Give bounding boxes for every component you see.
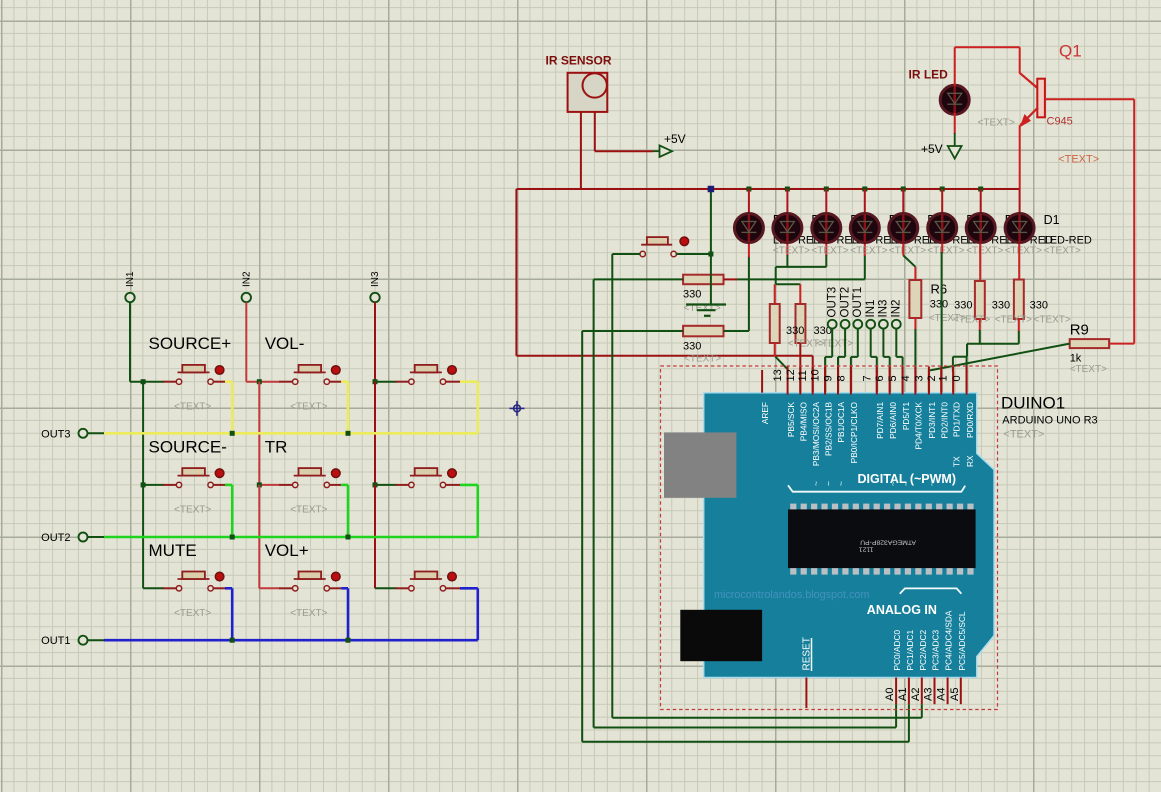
svg-text:OUT3: OUT3 (826, 287, 838, 318)
LED D5 (LED-RED) (850, 214, 879, 243)
svg-text:PC3/ADC3: PC3/ADC3 (931, 630, 941, 671)
svg-text:<TEXT>: <TEXT> (684, 354, 721, 365)
resistor 330 under LED8 (1014, 280, 1024, 320)
wire OUT1 horizontal (87, 639, 104, 641)
svg-text:IN2: IN2 (241, 271, 252, 287)
svg-text:TX: TX (951, 456, 961, 467)
pin A1 stub (908, 678, 910, 705)
push button row3 col3 (409, 586, 414, 591)
power +5V arrow (IR LED) (948, 146, 962, 159)
svg-text:PD5/T1: PD5/T1 (901, 402, 911, 431)
ground symbol (686, 303, 726, 305)
svg-text:MUTE: MUTE (149, 541, 197, 560)
svg-text:<TEXT>: <TEXT> (927, 245, 964, 256)
terminal OUT2 (79, 533, 88, 542)
svg-text:~: ~ (888, 481, 898, 486)
wire row2 col3 drop to OUT2 (476, 485, 479, 537)
push button row2 col1 SOURCE- (176, 482, 181, 487)
svg-text:C945: C945 (1047, 116, 1073, 128)
svg-text:PB3/MOSI/OC2A: PB3/MOSI/OC2A (811, 402, 821, 467)
svg-text:OUT1: OUT1 (852, 287, 864, 318)
digital bracket (788, 485, 965, 491)
svg-text:<TEXT>: <TEXT> (1005, 245, 1042, 256)
dashed outline DUINO1 (661, 366, 998, 710)
pin 13 stub (787, 367, 789, 395)
svg-text:ANALOG IN: ANALOG IN (867, 603, 937, 617)
svg-text:1: 1 (938, 375, 950, 381)
svg-text:VOL+: VOL+ (265, 541, 309, 560)
svg-text:OUT1: OUT1 (41, 635, 70, 647)
junction OUT1 col2 (346, 638, 351, 643)
wire row1 col1 drop to OUT3 (231, 382, 234, 434)
svg-text:<TEXT>: <TEXT> (953, 315, 990, 326)
svg-text:PB5/SCK: PB5/SCK (786, 402, 796, 438)
LED D4 (LED-RED) (889, 214, 918, 243)
wire row1 col2 drop to OUT3 (347, 382, 350, 434)
junction bus LED6 (940, 187, 945, 192)
push button row1 col2 VOL- (293, 379, 298, 384)
wire IN2 vertical (245, 302, 247, 382)
junction OUT1 col1 (230, 638, 235, 643)
svg-text:<TEXT>: <TEXT> (889, 245, 926, 256)
wire resistor-upper net to A0 (593, 279, 595, 727)
wire row1 col3 left stub (375, 381, 396, 383)
push button row1 col1 SOURCE+ (176, 379, 181, 384)
pin A2 stub (921, 678, 923, 705)
wire row2 col3 left stub (375, 484, 396, 486)
svg-text:<TEXT>: <TEXT> (816, 339, 853, 350)
resistor 330 lower (R?) (683, 326, 723, 337)
wire col1 vertical to row2 (142, 382, 144, 485)
terminal IN3 (370, 293, 379, 302)
terminal IN1 (125, 293, 134, 302)
svg-text:<TEXT>: <TEXT> (850, 245, 887, 256)
svg-text:Q1: Q1 (1059, 42, 1082, 61)
push button row2 col2 TR (293, 482, 298, 487)
svg-text:~: ~ (811, 481, 821, 486)
svg-text:<TEXT>: <TEXT> (1034, 315, 1071, 326)
wire LED3 down (825, 244, 827, 257)
wire row3 col2 drop to OUT1 (347, 588, 350, 640)
LED D8 (LED-RED) (734, 214, 763, 243)
junction OUT2 col2 (346, 535, 351, 540)
pin RESET stub (805, 678, 807, 709)
svg-text:DUINO1: DUINO1 (1001, 394, 1065, 413)
wire LED5 to R6 (902, 244, 904, 256)
wire IR LED cathode down (954, 113, 956, 134)
junction bus LED2 (785, 187, 790, 192)
svg-text:<TEXT>: <TEXT> (811, 245, 848, 256)
svg-text:<TEXT>: <TEXT> (290, 505, 327, 516)
wire row1 col2 left stub (246, 381, 280, 383)
svg-text:5: 5 (887, 375, 899, 381)
svg-text:0: 0 (951, 375, 963, 381)
svg-text:<TEXT>: <TEXT> (174, 401, 211, 412)
LED IR (big) (940, 85, 969, 114)
pin A5 stub (960, 678, 962, 705)
junction bus LED4 (862, 187, 867, 192)
terminal OUT3 (79, 429, 88, 438)
wire row3 col1 left stub (143, 587, 164, 589)
pin 6 stub (889, 367, 891, 395)
wire OUT3 to pin (831, 328, 833, 357)
svg-text:VOL-: VOL- (265, 334, 305, 353)
wire IN2 to pin (895, 328, 897, 357)
pin 10 stub (824, 367, 826, 395)
junction OUT3 col2 (346, 431, 351, 436)
svg-text:<TEXT>: <TEXT> (773, 245, 810, 256)
svg-text:2: 2 (926, 375, 938, 381)
wire OUT3 horizontal (87, 432, 104, 434)
junction OUT2 col1 (230, 535, 235, 540)
svg-text:12: 12 (785, 369, 797, 381)
wire LED7 anode stub (980, 189, 982, 214)
wire LED7 down (979, 244, 981, 282)
LED D7 (LED-RED) (773, 214, 802, 243)
svg-text:8: 8 (835, 375, 847, 381)
junction bus LED1 (746, 187, 751, 192)
wire Q1 emitter down to bus (1019, 125, 1021, 189)
ATMEGA328P chip (790, 504, 796, 511)
svg-text:IN1: IN1 (865, 300, 877, 318)
svg-text:AREF: AREF (760, 402, 770, 424)
svg-text:13: 13 (772, 369, 784, 381)
wire resistor lower left lead (582, 330, 683, 332)
svg-text:PB0/ICP1/CLKO: PB0/ICP1/CLKO (849, 401, 859, 463)
resistor A 330 vertical (770, 304, 780, 343)
wire LED1 anode stub (748, 189, 750, 214)
svg-text:330: 330 (683, 341, 701, 353)
wire row2 col1 left stub (143, 484, 164, 486)
svg-text:9: 9 (823, 375, 835, 381)
wire IN3 vertical (374, 302, 376, 382)
svg-text:TR: TR (265, 437, 288, 456)
wire col2 vertical to row2 (258, 382, 260, 485)
svg-text:RX: RX (965, 455, 975, 467)
pin A3 stub (934, 678, 936, 705)
wire LED3 anode stub (825, 189, 827, 214)
wire IN1 to pin (870, 328, 872, 357)
svg-text:A2: A2 (910, 688, 922, 701)
pin 2 stub (940, 367, 942, 395)
svg-text:PD7/AIN1: PD7/AIN1 (875, 402, 885, 439)
wire OUT1 to pin (857, 328, 859, 357)
svg-text:330: 330 (786, 325, 804, 337)
junction bus LED5 (901, 187, 906, 192)
pin 0 stub (966, 367, 968, 395)
svg-text:R6: R6 (931, 282, 948, 297)
svg-text:330: 330 (683, 289, 701, 301)
pin 4 stub (914, 367, 916, 395)
wire LED8 down (1018, 244, 1020, 280)
push button row3 col1 MUTE (176, 586, 181, 591)
junction row1 col1 (141, 379, 146, 384)
junction navy on bus (708, 186, 715, 193)
svg-text:A1: A1 (897, 688, 909, 701)
resistor R9 1k (1070, 339, 1109, 348)
USB connector (664, 432, 736, 497)
wire col3 vertical to row3 (374, 485, 376, 588)
transistor Q1 C945 (1020, 73, 1038, 89)
resistor R6 330 (909, 280, 921, 318)
pin 5 stub (902, 367, 904, 395)
LED D6 (LED-RED) (812, 214, 841, 243)
wire resistor upper left lead (594, 278, 684, 280)
svg-text:IR SENSOR: IR SENSOR (546, 54, 612, 68)
wire resistor lower right lead to LED1 (724, 330, 749, 332)
junction row2 col3 (373, 482, 378, 487)
svg-text:~: ~ (901, 481, 911, 486)
power +5V arrow (IR sensor) (653, 150, 660, 152)
terminal OUT3 (mid) (828, 320, 837, 329)
wire resistor A top lead (774, 284, 776, 304)
wire Q1 base (1045, 98, 1134, 100)
svg-text:11: 11 (797, 370, 809, 381)
svg-text:3: 3 (913, 375, 925, 381)
svg-text:PB2/SS/OC1B: PB2/SS/OC1B (823, 402, 833, 456)
LED D1 (LED-RED) (1005, 214, 1034, 243)
wire bus to button junction (710, 189, 712, 254)
svg-text:1121: 1121 (859, 545, 874, 552)
svg-text:IN2: IN2 (891, 300, 903, 318)
svg-text:A3: A3 (923, 688, 935, 701)
wire row3 col1 right stub (213, 587, 225, 589)
wire button right to junction (676, 253, 711, 255)
svg-text:6: 6 (874, 375, 886, 381)
wire resistor-lower net to A1 (581, 331, 583, 742)
svg-text:OUT2: OUT2 (839, 287, 851, 318)
wire R9 diagonal to pin 3 (930, 344, 1070, 371)
svg-text:PB4/MISO: PB4/MISO (799, 401, 809, 441)
svg-text:1k: 1k (1070, 353, 1082, 365)
wire IN3 to pin (882, 328, 884, 357)
wire to resistor B top (776, 283, 801, 285)
wire resistor B bottom lead to pin 12 (799, 343, 801, 395)
svg-text:PC1/ADC1: PC1/ADC1 (905, 630, 915, 671)
wire LED2 anode stub (786, 189, 788, 214)
svg-text:SOURCE-: SOURCE- (149, 437, 227, 456)
wire button left to A2 column (612, 253, 640, 255)
svg-text:330: 330 (930, 299, 948, 311)
svg-text:PD3/INT1: PD3/INT1 (927, 402, 937, 439)
terminal OUT2 (mid) (841, 320, 850, 329)
wire row3 col2 left stub (259, 587, 280, 589)
wire LED2-LED3 horizontal (776, 266, 827, 268)
wire resistor upper right lead to LED4 (724, 278, 738, 280)
svg-text:<TEXT>: <TEXT> (1044, 245, 1081, 256)
svg-text:OUT2: OUT2 (41, 532, 70, 544)
pin 7 stub (876, 367, 878, 395)
wire row1 col1 right stub (213, 381, 225, 383)
wire LED8 anode stub (1019, 189, 1021, 214)
svg-text:IR LED: IR LED (909, 68, 949, 82)
resistor 330 under LED7 (975, 281, 985, 319)
resistor B 330 vertical (796, 304, 806, 343)
svg-text:SOURCE+: SOURCE+ (149, 334, 232, 353)
svg-text:PD4/T0/XCK: PD4/T0/XCK (914, 402, 924, 450)
wire row3 col1 drop to OUT1 (231, 588, 234, 640)
svg-text:D1: D1 (1044, 213, 1060, 227)
svg-text:<TEXT>: <TEXT> (978, 118, 1015, 129)
wire button-left net to A2 (611, 254, 613, 718)
wire IR LED anode up (954, 47, 956, 86)
pin 8 stub (850, 367, 852, 395)
svg-text:~: ~ (823, 481, 833, 486)
svg-text:A4: A4 (936, 688, 948, 701)
terminal IN3 (mid) (879, 320, 888, 329)
wire row2 col1 right stub (213, 484, 225, 486)
junction row2 col2 (257, 482, 262, 487)
terminal IN2 (mid) (892, 320, 901, 329)
push button row2 col3 (409, 482, 414, 487)
junction bus LED3 (824, 187, 829, 192)
push button (IR trigger) (640, 251, 645, 256)
wire row2 col2 drop to OUT2 (347, 485, 350, 537)
svg-text:A0: A0 (884, 688, 896, 701)
power jack (680, 610, 762, 661)
svg-text:<TEXT>: <TEXT> (290, 608, 327, 619)
wire col3 vertical to row2 (374, 382, 376, 485)
resistor 330 upper (R?) (683, 275, 723, 285)
terminal OUT1 (79, 636, 88, 645)
wire junction to ground (710, 254, 712, 304)
analog bracket (900, 588, 962, 593)
svg-text:ARDUINO UNO R3: ARDUINO UNO R3 (1002, 415, 1097, 427)
LED D3 (LED-RED) (928, 214, 957, 243)
pin 9 stub (837, 367, 839, 395)
wire row2 col3 right stub (446, 484, 460, 486)
wire diagonal to pin 13 (775, 357, 787, 370)
wire row3 col2 right stub (330, 587, 342, 589)
svg-text:<TEXT>: <TEXT> (174, 505, 211, 516)
svg-text:<TEXT>: <TEXT> (1003, 429, 1044, 441)
svg-text:PC5/ADC5/SCL: PC5/ADC5/SCL (957, 611, 967, 670)
wire IN1 vertical (129, 302, 131, 382)
pin 3 stub (928, 367, 930, 395)
svg-text:microcontrolandos.blogspot.com: microcontrolandos.blogspot.com (714, 589, 869, 601)
svg-text:ATMEGA328P-PU: ATMEGA328P-PU (860, 539, 916, 546)
svg-text:IN3: IN3 (878, 300, 890, 318)
terminal IN1 (mid) (866, 320, 875, 329)
push button row1 col3 (409, 379, 414, 384)
pin A0 stub (895, 678, 897, 705)
svg-text:R9: R9 (1070, 322, 1089, 339)
svg-text:<TEXT>: <TEXT> (1058, 154, 1099, 166)
svg-text:+5V: +5V (921, 142, 943, 156)
svg-text:+5V: +5V (664, 132, 686, 146)
wire row2 col1 drop to OUT2 (231, 485, 234, 537)
svg-text:PC4/ADC4/SDA: PC4/ADC4/SDA (944, 610, 954, 670)
wire resistor LED7 bottom (979, 319, 981, 331)
wire row1 col3 drop to OUT3 (476, 382, 479, 434)
svg-text:<TEXT>: <TEXT> (995, 315, 1032, 326)
svg-text:330: 330 (992, 300, 1010, 312)
pin AREF stub (761, 370, 763, 393)
svg-text:PD0/RXD: PD0/RXD (965, 402, 975, 438)
terminal IN2 (242, 293, 251, 302)
svg-text:OUT3: OUT3 (41, 428, 70, 440)
svg-text:IN3: IN3 (370, 271, 381, 287)
wire collector vertical (1019, 47, 1021, 73)
svg-text:~: ~ (836, 481, 846, 486)
svg-text:PB1/OC1A: PB1/OC1A (836, 402, 846, 443)
origin marker (510, 401, 525, 416)
svg-text:7: 7 (861, 375, 873, 381)
svg-text:PC0/ADC0: PC0/ADC0 (892, 630, 902, 671)
IR sensor body (568, 73, 608, 112)
wire LED4 anode stub (864, 189, 866, 214)
wire LED5 anode stub (902, 189, 904, 214)
pin A4 stub (947, 678, 949, 705)
wire row3 col3 left stub (375, 587, 396, 589)
junction bus LED7 (978, 187, 983, 192)
wire LED2 down (786, 244, 788, 257)
svg-text:<TEXT>: <TEXT> (290, 401, 327, 412)
wire row3 col3 right stub (446, 587, 460, 589)
wire LED6 to pin 2 (941, 244, 943, 254)
junction row1 col2 (257, 379, 262, 384)
LED D2 (LED-RED) (966, 214, 995, 243)
svg-text:<TEXT>: <TEXT> (174, 608, 211, 619)
svg-text:<TEXT>: <TEXT> (966, 245, 1003, 256)
wire IR LED top horizontal (955, 46, 1020, 48)
wire resistor LED8 bottom (1018, 319, 1020, 332)
wire col1 vertical to row3 (142, 485, 144, 588)
svg-text:IN1: IN1 (125, 271, 136, 287)
wire top bus +5V (516, 188, 1019, 190)
wire resistor A bottom lead (774, 343, 776, 357)
wire Q1 base down right side (1133, 99, 1135, 343)
wire LED6 anode stub (941, 189, 943, 214)
wire OUT2 to pin (844, 328, 846, 357)
wire row1 col1 left stub (130, 381, 164, 383)
wire col2 vertical to row3 (258, 485, 260, 588)
svg-text:10: 10 (810, 369, 822, 381)
svg-text:4: 4 (900, 375, 912, 381)
wire row2 col2 left stub (259, 484, 280, 486)
Arduino UNO board DUINO1 (704, 393, 994, 678)
IR sensor right leg (594, 112, 596, 151)
svg-text:PD6/AIN0: PD6/AIN0 (888, 402, 898, 439)
junction row1 col3 (373, 379, 378, 384)
push button row3 col2 VOL+ (293, 586, 298, 591)
svg-text:330: 330 (1030, 300, 1048, 312)
wire row3 col3 drop to OUT1 (476, 588, 479, 640)
wire resistors to pins 0 and 1 (967, 343, 1019, 345)
svg-text:~: ~ (927, 481, 937, 486)
wire row1 col2 right stub (330, 381, 342, 383)
junction OUT3 col1 (230, 431, 235, 436)
wire row1 col3 right stub (446, 381, 460, 383)
wire R9 right lead (1109, 343, 1134, 345)
wire R6 to pin 4 (914, 318, 916, 330)
pin 1 stub (952, 367, 954, 395)
svg-text:PD2/INT0: PD2/INT0 (940, 402, 950, 439)
svg-text:330: 330 (954, 300, 972, 312)
pin 12 stub (799, 367, 801, 395)
IR sensor left leg (580, 112, 582, 189)
svg-text:PD1/TXD: PD1/TXD (951, 402, 961, 437)
junction button right (708, 252, 713, 257)
svg-text:PC2/ADC2: PC2/ADC2 (918, 630, 928, 671)
svg-text:<TEXT>: <TEXT> (1070, 364, 1107, 375)
terminal OUT1 (mid) (853, 320, 862, 329)
wire OUT2 horizontal (87, 536, 104, 538)
svg-text:A5: A5 (949, 688, 961, 701)
wire row2 col2 right stub (330, 484, 342, 486)
junction row2 col1 (141, 482, 146, 487)
wire +5V rail left vertical (515, 189, 517, 356)
